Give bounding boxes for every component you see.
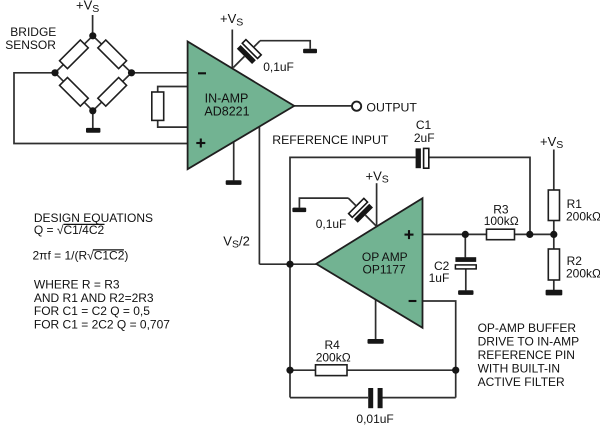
- svg-text:OP-AMP BUFFER: OP-AMP BUFFER: [478, 321, 577, 335]
- svg-text:1uF: 1uF: [429, 271, 450, 285]
- svg-text:AD8221: AD8221: [204, 105, 249, 119]
- svg-text:+VS: +VS: [76, 0, 99, 15]
- svg-text:ACTIVE FILTER: ACTIVE FILTER: [478, 375, 565, 389]
- svg-text:0,1uF: 0,1uF: [316, 217, 347, 231]
- svg-text:AND R1 AND R2=2R3: AND R1 AND R2=2R3: [34, 291, 154, 305]
- svg-text:0,01uF: 0,01uF: [356, 412, 393, 426]
- svg-text:IN-AMP: IN-AMP: [205, 92, 249, 106]
- svg-text:OP1177: OP1177: [363, 262, 406, 276]
- svg-text:200kΩ: 200kΩ: [566, 210, 600, 224]
- svg-text:REFERENCE PIN: REFERENCE PIN: [478, 348, 575, 362]
- svg-text:200kΩ: 200kΩ: [316, 350, 351, 364]
- svg-text:2uF: 2uF: [414, 131, 435, 145]
- svg-text:C1: C1: [416, 118, 432, 132]
- svg-text:FOR C1 = 2C2 Q = 0,707: FOR C1 = 2C2 Q = 0,707: [34, 318, 170, 332]
- svg-text:100kΩ: 100kΩ: [484, 214, 519, 228]
- svg-text:DRIVE TO IN-AMP: DRIVE TO IN-AMP: [478, 335, 580, 349]
- svg-text:SENSOR: SENSOR: [5, 38, 56, 52]
- svg-text:200kΩ: 200kΩ: [566, 266, 600, 280]
- svg-text:0,1uF: 0,1uF: [263, 60, 294, 74]
- svg-text:WHERE R = R3: WHERE R = R3: [34, 278, 120, 292]
- svg-text:WITH BUILT-IN: WITH BUILT-IN: [478, 362, 560, 376]
- svg-text:FOR C1 = C2 Q = 0,5: FOR C1 = C2 Q = 0,5: [34, 304, 150, 318]
- svg-text:OUTPUT: OUTPUT: [366, 100, 417, 114]
- svg-text:REFERENCE INPUT: REFERENCE INPUT: [272, 133, 389, 147]
